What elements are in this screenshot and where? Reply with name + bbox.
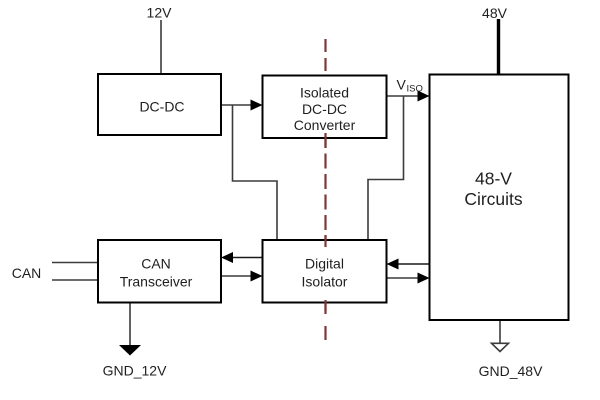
svg-text:Converter: Converter [294, 117, 356, 133]
wire branch from DC-DC output down to Digital Isolator [233, 105, 278, 240]
label Viso [397, 77, 423, 95]
wire 12V feed [160, 20, 162, 74]
svg-text:V: V [397, 77, 407, 93]
wire DC-DC output to Isolated DC-DC Converter [221, 104, 252, 106]
wire CAN bus line lower [52, 279, 98, 281]
wire branch from Viso down to Digital Isolator [368, 96, 404, 240]
block DC-DC [98, 74, 221, 135]
ground GND_48V (open arrow) [492, 343, 509, 351]
svg-text:Isolator: Isolator [302, 274, 348, 290]
svg-text:DC-DC: DC-DC [139, 99, 184, 115]
svg-text:Isolated: Isolated [300, 85, 349, 101]
arrowhead into 48-V Circuits [418, 91, 430, 102]
isolation barrier dashed line top segment [324, 39, 326, 71]
svg-text:Digital: Digital [305, 256, 344, 272]
block CAN Transceiver [98, 240, 221, 303]
arrowhead into 48-V Circuits left side [418, 273, 430, 284]
wire CAN Transceiver ground stub [129, 303, 131, 346]
block Isolated DC-DC Converter [263, 76, 387, 139]
dash crossing Isolated box bottom edge [324, 133, 326, 148]
svg-text:DC-DC: DC-DC [302, 101, 347, 117]
dash crossing Digital Isolator top edge (over box) [324, 235, 326, 247]
wire 48-V Circuits to Digital Isolator (leftward arrow) [398, 263, 430, 265]
wire CAN Transceiver to Digital Isolator (rightward arrow) [221, 275, 251, 277]
svg-text:48-V: 48-V [475, 169, 512, 189]
ground GND_12V (filled arrow) [119, 345, 141, 356]
isolation barrier dashed line middle segment [324, 133, 326, 250]
wire Digital Isolator to 48-V Circuits (rightward arrow) [387, 277, 418, 279]
svg-text:12V: 12V [147, 5, 173, 21]
block Digital Isolator [263, 240, 387, 303]
svg-text:ISO: ISO [407, 84, 423, 95]
wire Digital Isolator to CAN Transceiver (leftward arrow) [233, 257, 263, 259]
svg-text:CAN: CAN [12, 265, 42, 281]
isolation barrier dashed line bottom segment [324, 300, 326, 340]
svg-text:CAN: CAN [141, 256, 171, 272]
arrowhead into Isolated DC-DC Converter [251, 100, 263, 111]
dash crossing Digital Isolator bottom edge (over box) [324, 300, 326, 311]
wire Viso from Isolated DC-DC Converter to 48-V Circuits [387, 95, 420, 97]
arrowhead into Digital Isolator [251, 271, 263, 282]
arrowhead into CAN Transceiver [221, 252, 233, 263]
wire 48-V Circuits ground stub [499, 320, 501, 343]
svg-text:48V: 48V [482, 5, 508, 21]
wire 48V feed (thick) [497, 19, 500, 75]
wire CAN bus line upper [52, 262, 98, 264]
svg-text:Circuits: Circuits [464, 189, 523, 209]
block 48-V Circuits [430, 75, 569, 321]
svg-text:GND_12V: GND_12V [103, 363, 167, 379]
svg-text:Transceiver: Transceiver [120, 274, 193, 290]
arrowhead into Digital Isolator right side [387, 259, 399, 270]
svg-text:GND_48V: GND_48V [479, 363, 543, 379]
